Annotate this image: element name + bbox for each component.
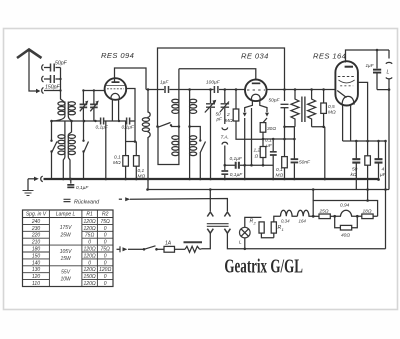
antenna jack 2 — [42, 76, 44, 82]
transformer T3 primary zigzag — [291, 90, 299, 127]
svg-text:0,34: 0,34 — [281, 219, 290, 224]
svg-text:180: 180 — [32, 247, 41, 253]
svg-text:0: 0 — [104, 260, 107, 266]
switch S3 — [156, 123, 179, 128]
svg-text:0,1µF: 0,1µF — [230, 156, 243, 162]
wire L2a top — [64, 121, 66, 135]
T2 left bracket wire — [158, 127, 179, 164]
svg-text:0,5: 0,5 — [328, 104, 335, 110]
ground — [23, 179, 34, 196]
U2 filament legs — [245, 101, 267, 112]
capacitor C6 0.1uF — [122, 118, 135, 131]
svg-text:240: 240 — [31, 219, 41, 225]
svg-text:120Ω: 120Ω — [84, 267, 96, 273]
transformer T2 bottom right coil — [190, 135, 197, 158]
capacitor 150pF — [44, 75, 61, 91]
svg-text:40Ω: 40Ω — [341, 233, 350, 239]
switch S4 — [199, 139, 206, 180]
capacitor C12 0.1uF — [265, 138, 277, 181]
resistor R8 0.1M — [276, 157, 288, 181]
tube U2 RE034 — [245, 80, 267, 102]
U3 heater legs — [343, 106, 351, 142]
resistor R7 1.2ohm — [254, 139, 266, 167]
svg-text:Ω: Ω — [255, 154, 259, 160]
resistor 40ohm parallel — [335, 215, 359, 239]
svg-text:0,1: 0,1 — [138, 168, 145, 174]
svg-text:2: 2 — [226, 112, 230, 118]
main bus — [44, 178, 379, 180]
svg-text:105V: 105V — [60, 249, 72, 255]
voltage selector right — [224, 212, 385, 249]
capacitor C18 0.1uF shunt — [221, 165, 243, 180]
svg-text:164: 164 — [299, 219, 307, 224]
wire C5 to bus — [105, 121, 107, 179]
svg-text:L: L — [387, 70, 390, 76]
svg-text:RES 094: RES 094 — [101, 51, 134, 60]
svg-text:120Ω: 120Ω — [99, 267, 111, 273]
svg-text:0: 0 — [104, 274, 107, 280]
voltage table — [23, 210, 114, 287]
svg-text:55V: 55V — [61, 270, 71, 276]
antenna plug arrow — [36, 89, 41, 93]
heater 034 — [281, 210, 298, 223]
svg-text:R1: R1 — [86, 212, 93, 218]
T2 middle junctions — [179, 116, 190, 135]
wire tap to switch S2 — [83, 121, 85, 140]
svg-text:T.A.: T.A. — [221, 135, 229, 141]
svg-text:MΩ: MΩ — [225, 118, 233, 124]
heater 164 — [297, 210, 313, 223]
svg-text:100µF: 100µF — [206, 80, 221, 86]
wire jack3 — [44, 90, 61, 92]
svg-text:120Ω: 120Ω — [84, 226, 96, 232]
svg-text:RE 034: RE 034 — [241, 52, 269, 61]
tube U1 side wire — [125, 89, 135, 122]
antenna — [17, 50, 42, 92]
svg-text:120: 120 — [32, 274, 41, 280]
mains switch S5 — [128, 246, 158, 251]
coil L2a — [58, 135, 65, 158]
wire y165 — [225, 164, 273, 166]
capacitor 50pF — [44, 61, 68, 72]
svg-text:MΩ: MΩ — [113, 160, 121, 166]
trimmer capacitor C4 — [90, 91, 99, 122]
wire antenna to coil — [61, 68, 65, 103]
speaker jack bottom — [386, 78, 392, 79]
resistor R2 heater — [250, 219, 274, 238]
capacitor C16 4uF — [375, 141, 387, 181]
svg-text:1,2: 1,2 — [254, 148, 261, 154]
plug arrow chassis — [28, 178, 34, 180]
capacitor C8 100uF — [206, 80, 221, 94]
svg-text:50nF: 50nF — [299, 160, 311, 166]
svg-text:50: 50 — [352, 167, 358, 173]
svg-text:230: 230 — [31, 226, 41, 232]
grid wire to tube U1 — [83, 90, 104, 92]
resistor R3 0.1M — [113, 121, 135, 179]
cap rail y121 — [52, 120, 136, 122]
svg-text:0,1µF: 0,1µF — [96, 125, 109, 131]
resistor R5 2M — [225, 88, 263, 139]
svg-text:0: 0 — [104, 281, 107, 287]
svg-text:1A: 1A — [165, 241, 172, 247]
svg-text:110: 110 — [32, 281, 40, 287]
anode loop over tube U1 — [115, 68, 147, 90]
table text — [26, 212, 112, 287]
wire down to resistor junction — [134, 121, 136, 142]
resistor R10 50k — [351, 141, 371, 201]
svg-text:120Ω: 120Ω — [84, 281, 96, 287]
antenna jack 3 — [42, 88, 44, 94]
svg-text:25W: 25W — [59, 233, 72, 239]
svg-text:kΩ: kΩ — [351, 172, 357, 178]
T3 core — [302, 97, 305, 123]
svg-text:150Ω: 150Ω — [84, 274, 96, 280]
svg-text:15W: 15W — [60, 256, 72, 262]
svg-text:Lampe L: Lampe L — [56, 212, 76, 218]
coil L1a antenna primary — [58, 102, 65, 117]
svg-text:18Ω: 18Ω — [363, 209, 372, 215]
anode wire y89.5 — [146, 89, 245, 91]
mains terminal — [117, 246, 128, 252]
svg-text:30Ω: 30Ω — [267, 126, 276, 132]
chassis capacitor 0.1uF — [67, 178, 89, 191]
svg-text:130: 130 — [32, 267, 41, 273]
svg-text:Spg. in V: Spg. in V — [26, 212, 47, 218]
resistor R1 heater — [271, 216, 284, 237]
wire y139 — [263, 138, 294, 140]
svg-text:120Ω: 120Ω — [84, 247, 96, 253]
svg-text:0: 0 — [104, 233, 107, 239]
trimmer capacitor C3 — [80, 91, 89, 122]
U3 side wire — [358, 82, 368, 141]
svg-text:75Ω: 75Ω — [101, 247, 111, 253]
svg-text:10W: 10W — [60, 277, 72, 283]
speaker jack top — [388, 50, 390, 59]
svg-text:140: 140 — [32, 260, 41, 266]
coil L1b antenna secondary — [68, 102, 75, 117]
wire x385 down — [385, 141, 387, 249]
svg-text:0,1: 0,1 — [276, 167, 283, 173]
switch S1 — [50, 140, 57, 180]
transformer T2 bottom left coil — [172, 135, 179, 158]
svg-text:120Ω: 120Ω — [84, 219, 96, 225]
top rail — [158, 48, 285, 127]
svg-text:120Ω: 120Ω — [84, 253, 96, 259]
T2 right coil to bus — [189, 158, 191, 180]
capacitor C11 0.1uF series — [230, 156, 243, 169]
svg-text:150: 150 — [32, 253, 41, 259]
label Rueckwand — [64, 199, 101, 205]
svg-text:0: 0 — [88, 240, 91, 246]
svg-text:175V: 175V — [60, 225, 72, 231]
svg-text:4: 4 — [382, 167, 385, 173]
svg-text:0,94: 0,94 — [340, 203, 350, 209]
svg-text:0,1: 0,1 — [265, 138, 272, 144]
svg-text:75Ω: 75Ω — [101, 219, 111, 225]
svg-text:0,1: 0,1 — [114, 155, 121, 161]
fuse 1A — [157, 241, 186, 253]
svg-text:L: L — [239, 240, 242, 245]
svg-text:R2: R2 — [102, 212, 109, 218]
svg-text:0: 0 — [88, 260, 91, 266]
jack T.A. bottom — [222, 142, 228, 144]
capacitor C15 — [352, 141, 360, 190]
resistor 25ohm — [313, 209, 336, 219]
speaker coupling capacitor C17 — [366, 49, 382, 90]
svg-text:MΩ: MΩ — [276, 173, 284, 179]
lamp L — [239, 217, 261, 250]
svg-text:220: 220 — [31, 233, 41, 239]
second rail — [148, 189, 390, 191]
transformer T2 top right coil — [190, 90, 197, 117]
svg-text:75Ω: 75Ω — [85, 233, 95, 239]
svg-text:1µF: 1µF — [366, 63, 375, 68]
svg-text:150pF: 150pF — [45, 85, 61, 91]
grid rail to U2 top — [179, 69, 256, 80]
svg-text:0,1µF: 0,1µF — [76, 185, 89, 191]
svg-text:MΩ: MΩ — [328, 110, 336, 116]
heater 094 — [335, 203, 358, 217]
capacitor C13 50pF — [269, 98, 289, 108]
capacitor C14 50nF — [285, 127, 312, 181]
svg-text:0: 0 — [104, 253, 107, 259]
svg-text:1µF: 1µF — [160, 80, 169, 86]
wire y141 — [343, 140, 386, 142]
wire T3 to bus — [324, 127, 326, 179]
transformer T2 top left coil — [172, 69, 179, 116]
svg-text:210: 210 — [31, 240, 41, 246]
svg-text:0,1µF: 0,1µF — [230, 172, 243, 178]
switch S2 — [82, 140, 88, 180]
resistor R6 30ohm — [260, 123, 276, 141]
capacitor C7 1uF — [160, 80, 169, 94]
wire L1b down — [68, 117, 71, 135]
tube U1 cathode stems — [112, 100, 118, 122]
resistor R4 0.1M — [134, 142, 146, 180]
transformer T3 secondary zigzag — [308, 90, 316, 127]
svg-text:50pF: 50pF — [269, 98, 281, 104]
variable capacitor C9 — [205, 88, 217, 180]
svg-text:Rückwand: Rückwand — [74, 200, 100, 206]
tube U1 RES094 — [105, 78, 127, 100]
third rail with connector — [119, 198, 122, 200]
svg-text:Geatrix G/GL: Geatrix G/GL — [224, 257, 303, 278]
oscillator coil L3 — [142, 90, 150, 190]
voltage selector left — [202, 188, 229, 249]
wire L2 bottoms to bus — [63, 158, 65, 180]
svg-text:50pF: 50pF — [55, 61, 68, 67]
svg-text:RES 164: RES 164 — [313, 52, 346, 61]
capacitor C5 0.1uF — [96, 118, 109, 131]
trimmer capacitor C10 50pF — [216, 88, 230, 124]
svg-text:0: 0 — [104, 226, 107, 232]
antenna jack 1 — [42, 65, 44, 71]
wire T2 to switch S4 — [190, 127, 201, 141]
T3 bottom wire — [285, 126, 325, 128]
heater return rail — [313, 201, 377, 217]
wire coil tap to switch S1 — [52, 117, 65, 141]
svg-text:0: 0 — [104, 240, 107, 246]
resistor R9 0.5M — [321, 88, 336, 128]
svg-text:25Ω: 25Ω — [319, 209, 329, 215]
heating resistor R1 mains — [184, 242, 203, 252]
tube U3 RES164 — [335, 61, 358, 105]
resistor 18ohm — [357, 209, 377, 219]
svg-text:1: 1 — [282, 227, 284, 232]
wire U2 anode y89.5 right — [266, 89, 335, 91]
jack T.A. top — [222, 128, 228, 130]
U3 anode to top wire — [346, 50, 390, 63]
speaker return wire — [377, 90, 389, 190]
svg-text:0,1µF: 0,1µF — [122, 125, 135, 131]
coil L2b — [68, 135, 75, 158]
